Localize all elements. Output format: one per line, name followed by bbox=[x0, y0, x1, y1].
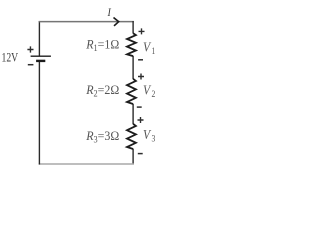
wire top (light gray horizontal) bbox=[39, 21, 134, 23]
resistor R3 zigzag bbox=[127, 124, 136, 149]
R3 plus sign bbox=[138, 117, 144, 123]
R1 minus sign bbox=[138, 59, 143, 61]
label V2 bbox=[143, 83, 155, 99]
R2 minus sign bbox=[137, 106, 142, 108]
svg-text:R3=3Ω: R3=3Ω bbox=[85, 129, 119, 145]
battery minus sign bbox=[28, 64, 34, 66]
wire right upper (top-right corner to R1) bbox=[132, 21, 134, 33]
label 12V bbox=[2, 51, 19, 65]
R2 plus sign bbox=[138, 74, 144, 80]
label V3 bbox=[143, 127, 155, 143]
label R3=3ohm bbox=[85, 129, 119, 145]
label I (current) bbox=[107, 6, 112, 19]
label V1 bbox=[143, 40, 155, 56]
resistor R2 zigzag bbox=[127, 79, 136, 104]
resistor R1 zigzag bbox=[127, 33, 136, 56]
label R2=2ohm bbox=[85, 83, 119, 99]
battery B1 negative plate (short thick) bbox=[36, 60, 45, 62]
current arrow on top wire bbox=[114, 18, 119, 26]
wire left lower (battery to bottom-left corner) bbox=[38, 61, 40, 164]
wire right between R2 and R3 bbox=[132, 104, 134, 124]
svg-text:R1=1Ω: R1=1Ω bbox=[85, 37, 119, 53]
R1 plus sign bbox=[139, 28, 145, 34]
wire left upper (battery to top-left corner) bbox=[38, 21, 40, 56]
wire right between R1 and R2 bbox=[132, 56, 134, 79]
wire bottom (very light gray horizontal) bbox=[39, 163, 134, 165]
svg-text:R2=2Ω: R2=2Ω bbox=[85, 83, 119, 99]
R3 minus sign bbox=[138, 153, 143, 155]
battery B1 positive plate (long) bbox=[31, 55, 51, 57]
svg-text:12V: 12V bbox=[2, 51, 19, 65]
battery plus sign bbox=[27, 46, 33, 52]
label R1=1ohm bbox=[85, 37, 119, 53]
wire right lower (R3 to bottom-right corner) bbox=[132, 149, 134, 165]
